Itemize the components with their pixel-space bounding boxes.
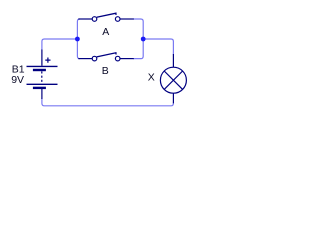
battery plate long 1: [27, 65, 58, 67]
node junction dot right: [141, 37, 146, 42]
switch B lead left: [78, 58, 92, 60]
battery plate thick 1: [33, 69, 46, 71]
node junction dot left: [75, 37, 80, 42]
switch B blade: [97, 53, 116, 57]
svg-text:9V: 9V: [11, 74, 24, 86]
svg-text:A: A: [102, 26, 109, 38]
lamp X lead bottom: [172, 93, 174, 103]
wire left rail: [77, 19, 80, 59]
lamp X lead top: [172, 54, 174, 67]
battery plus sign: [45, 58, 50, 63]
switch B contact circle left: [92, 56, 97, 61]
switch B contact circle right: [115, 56, 120, 61]
lamp X cross: [164, 71, 182, 89]
switch A contact circle right: [115, 17, 120, 22]
wire battery top to left node: [42, 39, 78, 50]
wire right rail: [133, 19, 143, 59]
switch A lead left: [78, 18, 92, 20]
wire bottom rail: [42, 99, 174, 106]
switch A lead right: [120, 18, 134, 20]
switch A contact circle left: [92, 17, 97, 22]
battery B1 lead bottom: [41, 89, 43, 99]
battery dashed cell link: [41, 71, 43, 83]
svg-text:B: B: [102, 65, 109, 77]
wire right node to lamp top: [143, 39, 173, 55]
battery plate long 2: [27, 83, 58, 85]
battery plate thick 2: [33, 87, 46, 89]
switch A blade: [97, 13, 116, 17]
battery B1 lead top: [41, 50, 43, 66]
lamp X circle: [160, 67, 186, 93]
svg-text:X: X: [148, 71, 155, 83]
switch B lead right: [120, 58, 134, 60]
